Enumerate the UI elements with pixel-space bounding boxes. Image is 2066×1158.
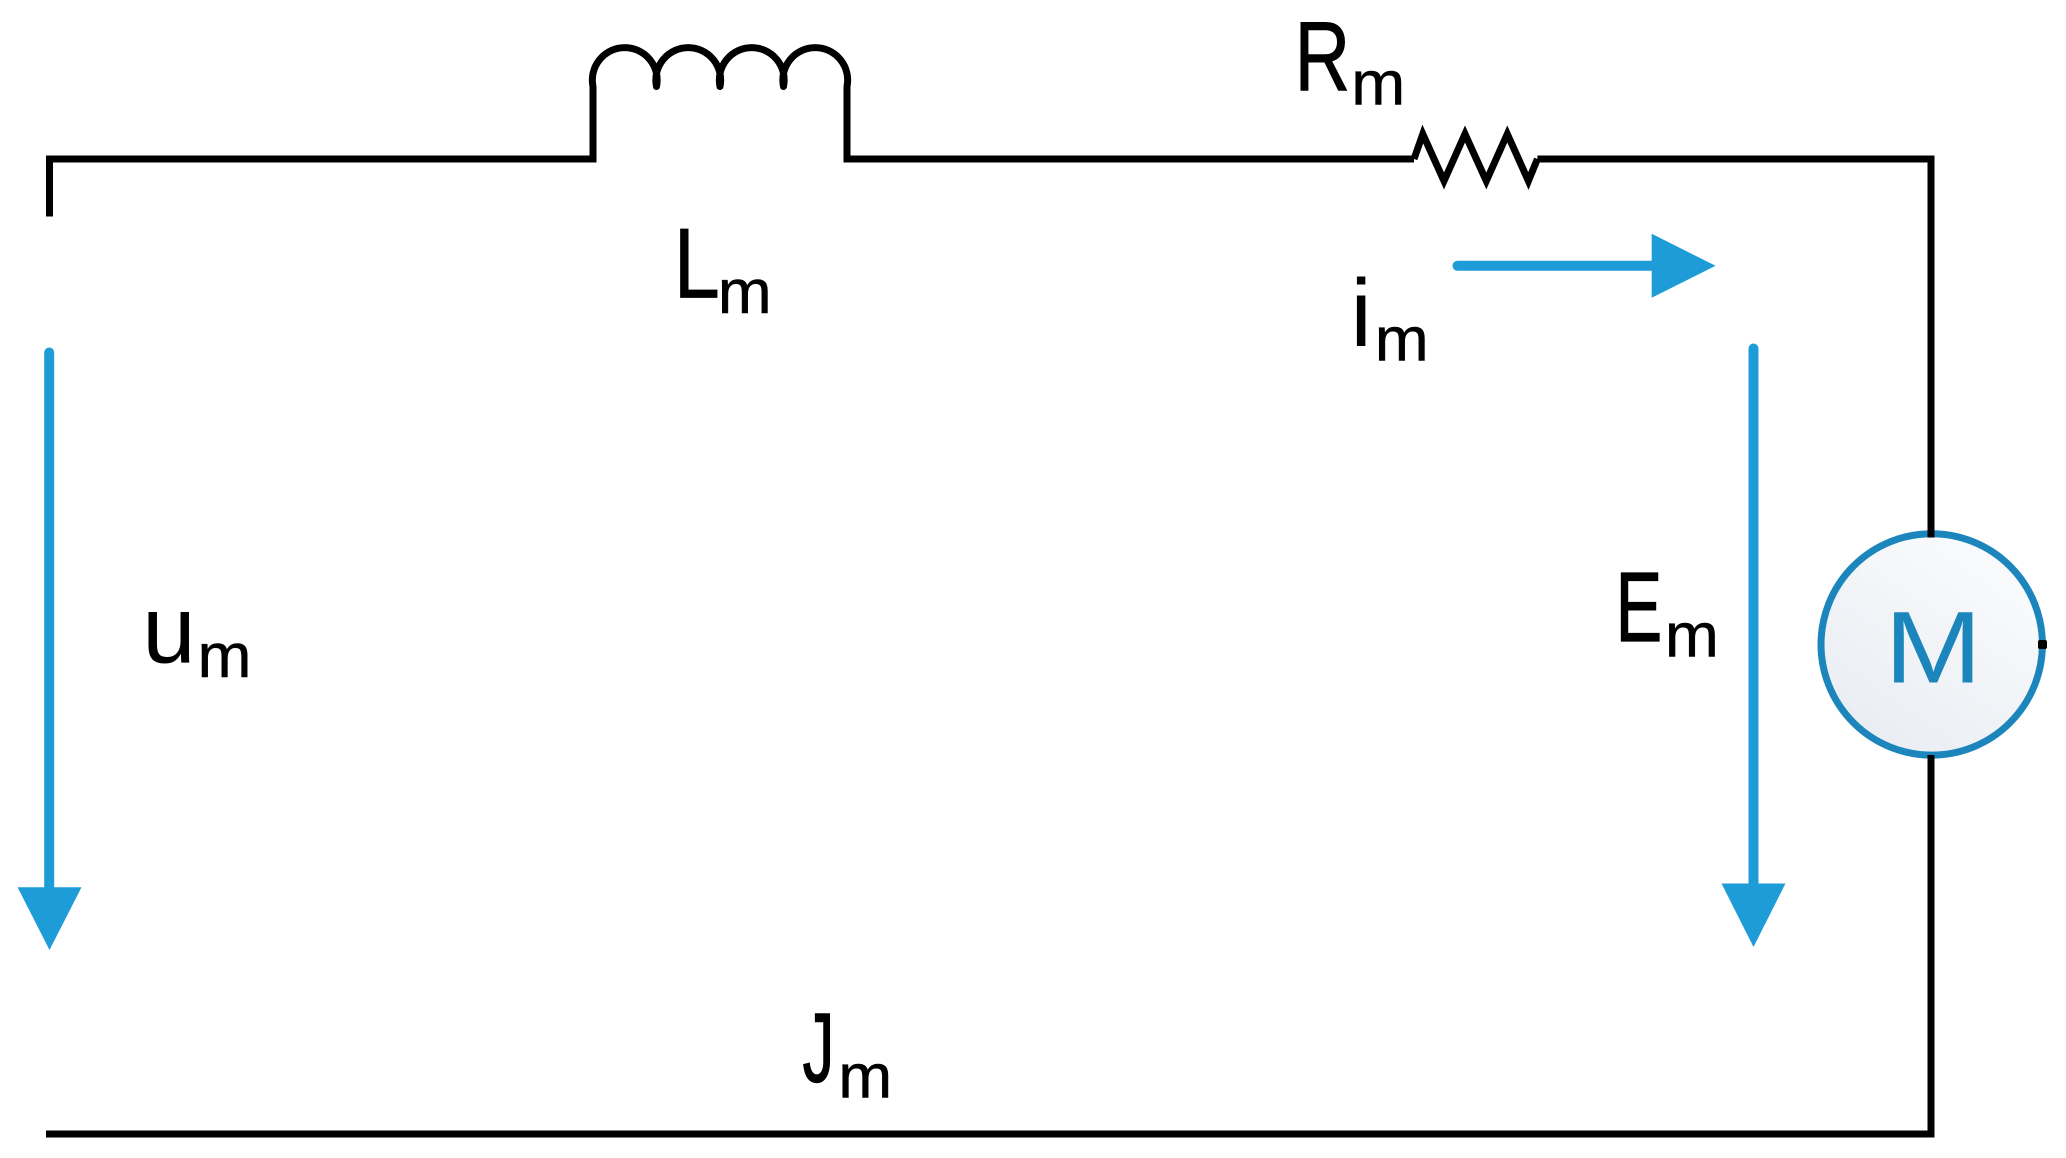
- wire: top-left stub and top wire to inductor: [50, 159, 594, 217]
- svg-text:m: m: [1665, 602, 1719, 670]
- label Lm: [674, 209, 772, 327]
- motor M circle: [1821, 534, 2042, 755]
- svg-text:m: m: [1351, 50, 1405, 118]
- svg-text:m: m: [838, 1043, 892, 1111]
- label Rm: [1295, 1, 1406, 118]
- svg-text:R: R: [1295, 1, 1351, 111]
- wire: inductor to resistor: [847, 156, 1414, 163]
- label Em: [1616, 553, 1719, 670]
- svg-text:m: m: [718, 258, 772, 326]
- svg-text:m: m: [1375, 306, 1429, 374]
- wire: top terminal into motor: [1928, 508, 1935, 538]
- svg-text:M: M: [1885, 591, 1982, 704]
- label Jm: [803, 994, 893, 1111]
- wire: resistor to top-right corner down to motor top: [1537, 159, 1931, 510]
- voltage arrow um: [18, 353, 82, 951]
- motor M letter: [1885, 591, 1982, 704]
- svg-text:J: J: [803, 994, 835, 1103]
- svg-text:L: L: [674, 209, 720, 319]
- inductor Lm coil: [592, 48, 847, 163]
- svg-text:E: E: [1616, 553, 1663, 662]
- svg-text:i: i: [1351, 260, 1372, 367]
- label um: [142, 577, 251, 691]
- motor right terminal dot: [2038, 640, 2047, 649]
- label im: [1351, 260, 1429, 374]
- wire: motor bottom to bottom-right corner and bottom wire: [46, 755, 1931, 1134]
- svg-text:u: u: [142, 577, 195, 684]
- resistor Rm zigzag: [1414, 134, 1537, 181]
- current arrow im: [1458, 234, 1716, 298]
- emf arrow Em: [1722, 349, 1786, 948]
- svg-text:m: m: [198, 622, 252, 690]
